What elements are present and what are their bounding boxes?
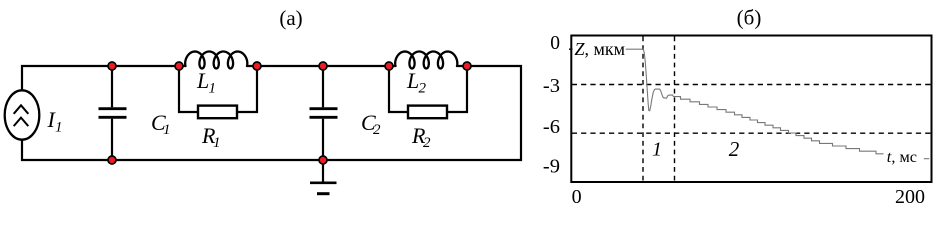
gridline -3 dashed [572,84,931,86]
inductor L2 [389,52,467,69]
capacitor C2 [310,66,338,160]
svg-text:200: 200 [895,186,925,208]
node 1 (top of C1) [108,62,116,70]
svg-text:2: 2 [423,135,431,151]
svg-text:-9: -9 [543,156,560,178]
svg-text:0: 0 [550,33,560,54]
svg-text:2: 2 [729,137,740,161]
svg-text:(а): (а) [279,6,302,30]
gridline -6 dashed [572,132,931,134]
signal curve Z(t) [572,49,930,159]
label I1 [47,107,63,136]
svg-text:1: 1 [652,138,662,160]
dashed boundary line left (region 1) [642,37,644,182]
axis label Z, mkm [573,39,626,59]
svg-text:L: L [196,68,209,93]
dashed boundary line right (region 2) [674,37,676,182]
svg-text:1: 1 [209,81,217,97]
signal curve final segment [924,158,930,160]
label C1 [151,110,171,138]
wire top-left corner and top rail to node B [22,66,179,90]
label L1 [196,68,216,97]
svg-text:0: 0 [572,186,582,208]
label R2 [411,123,431,151]
resistor R2 [389,66,467,118]
svg-text:L: L [406,68,419,93]
svg-text:2: 2 [373,122,381,138]
node 6 (right of L2) [463,62,471,70]
plot frame [571,36,931,183]
resistor R1 [179,66,257,118]
label L2 [406,68,427,97]
svg-text:2: 2 [419,81,427,97]
node 2 (left of L1) [175,62,183,70]
svg-text:t, мс: t, мс [887,147,917,166]
svg-text:1: 1 [213,135,221,151]
label R1 [201,123,221,151]
node 4 (top of C2) [319,62,327,70]
node 3 (right of L1) [253,62,261,70]
capacitor C1 [99,66,127,160]
svg-text:Z, мкм: Z, мкм [575,39,626,59]
wire top rail node C to node E [257,65,389,67]
svg-text:1: 1 [55,120,63,136]
svg-text:-3: -3 [543,75,560,97]
svg-text:-6: -6 [543,116,560,138]
ground [310,160,337,194]
svg-text:(б): (б) [737,6,762,30]
current source I1 [5,90,40,139]
svg-text:1: 1 [163,122,171,138]
node 7 (bottom of C1) [108,156,116,164]
inductor L1 [179,52,257,69]
wire right side and bottom rail [22,66,521,160]
tick 0 level [569,48,575,50]
label C2 [361,110,381,138]
node 8 (bottom of C2, ground) [319,156,327,164]
node 5 (left of L2) [385,62,393,70]
axis label t, ms [884,147,931,166]
